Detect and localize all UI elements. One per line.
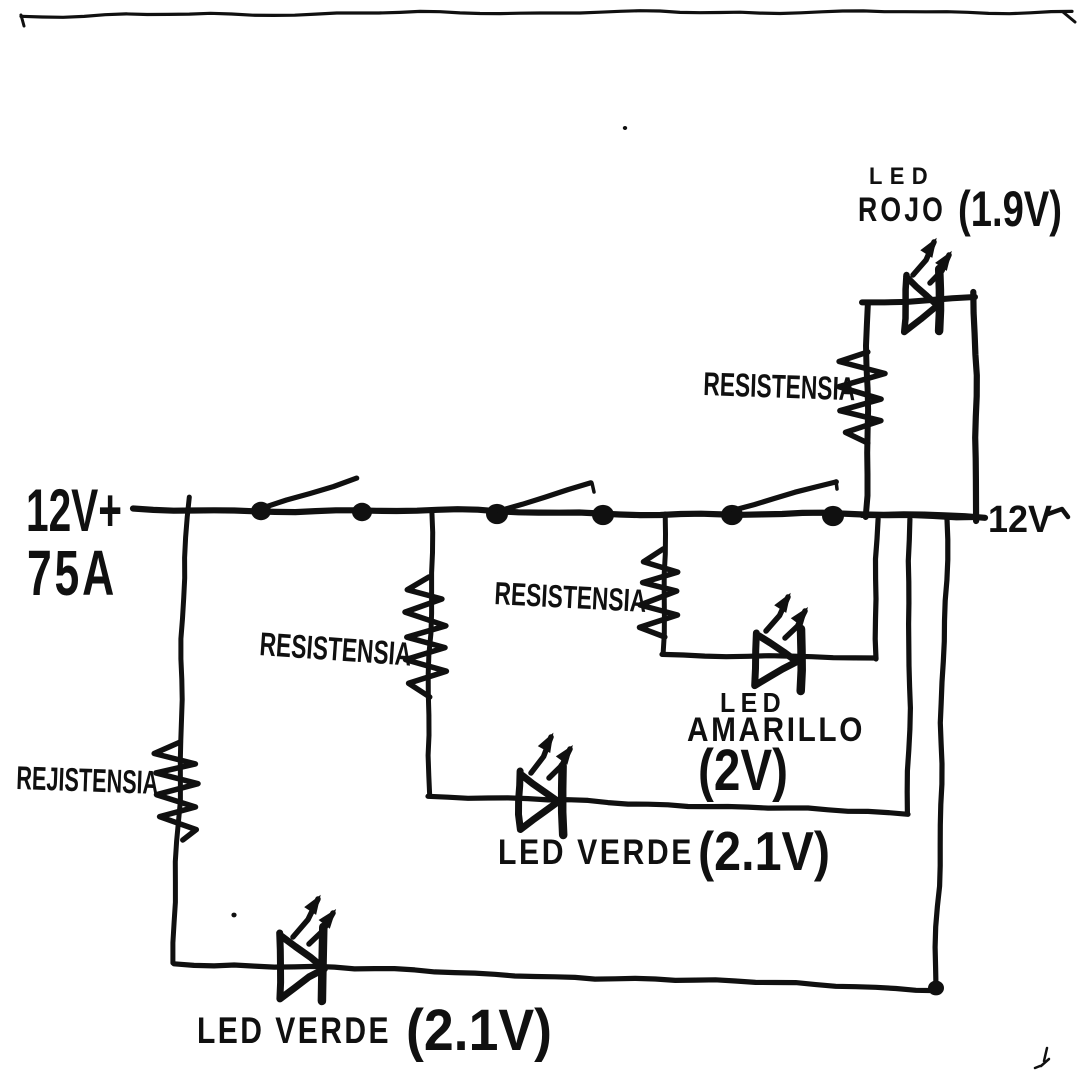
svg-text:REJISTENSIA: REJISTENSIA bbox=[16, 759, 159, 801]
switch S1 blade bbox=[263, 478, 357, 508]
label LED VERDE mid bbox=[498, 833, 694, 872]
resistor R2 bbox=[405, 577, 446, 697]
label RESISTENSIA R4 bbox=[703, 365, 856, 407]
node J2 bbox=[352, 503, 372, 521]
wire branch2 right vertical up to rail bbox=[907, 519, 910, 813]
resistor R3 bbox=[640, 549, 678, 637]
svg-text:(1.9V): (1.9V) bbox=[958, 181, 1062, 237]
wire rojo box right vertical bbox=[973, 292, 977, 521]
LED D2 green mid bbox=[519, 766, 564, 835]
svg-text:LED VERDE: LED VERDE bbox=[197, 1010, 391, 1051]
svg-text:LED: LED bbox=[869, 163, 935, 190]
label RESISTENSIA R2 bbox=[259, 625, 413, 673]
LED D1 green bbox=[280, 927, 325, 1001]
wire rojo box bottom overdraw on rail bbox=[862, 515, 980, 517]
svg-text:75A: 75A bbox=[27, 537, 117, 609]
svg-text:12V+: 12V+ bbox=[26, 477, 122, 544]
LED D4 arrows bbox=[913, 238, 952, 283]
ink speck top center bbox=[623, 126, 627, 130]
wire main 12V+ rail bbox=[133, 509, 985, 518]
svg-text:12V: 12V bbox=[988, 499, 1053, 541]
svg-text:RESISTENSIA: RESISTENSIA bbox=[494, 575, 648, 619]
wire rojo box left vertical bbox=[866, 303, 868, 517]
wire bottom return bbox=[174, 964, 936, 991]
wire branch2 vertical drop bbox=[428, 512, 433, 796]
label (2.1V) bottom bbox=[406, 998, 552, 1063]
LED D2 arrows bbox=[531, 733, 573, 778]
border scan line top bbox=[21, 11, 1075, 26]
LED D3 yellow bbox=[755, 629, 802, 691]
wire branch2 horizontal to LED bbox=[428, 796, 908, 814]
switch S2 blade bbox=[499, 483, 594, 511]
wire branch3 right vertical up to rail bbox=[875, 519, 878, 659]
label AMARILLO bbox=[687, 711, 865, 749]
svg-text:(2.1V): (2.1V) bbox=[406, 998, 552, 1063]
node J5 bbox=[721, 505, 743, 525]
wire rojo box top bbox=[862, 297, 975, 302]
svg-text:ROJO: ROJO bbox=[858, 191, 946, 229]
LED D1 arrows bbox=[293, 895, 336, 944]
label 12V+ supply bbox=[26, 477, 122, 544]
label (1.9V) bbox=[958, 181, 1062, 237]
resistor R1 bbox=[154, 742, 198, 840]
label LED amarillo bbox=[720, 687, 786, 718]
node J1 bbox=[251, 502, 271, 520]
resistor R4 bbox=[839, 352, 885, 443]
wire branch3 vertical drop bbox=[663, 514, 665, 654]
node J3 bbox=[486, 504, 508, 524]
wire right return vertical bbox=[935, 519, 948, 988]
node J4 bbox=[592, 505, 614, 525]
LED D3 arrows bbox=[766, 593, 808, 638]
node bottom-right corner bbox=[928, 981, 944, 996]
wire branch3 horizontal to LED bbox=[662, 654, 876, 658]
label (2.1V) mid bbox=[698, 820, 830, 882]
label REJISTENSIA R1 bbox=[16, 759, 159, 801]
label 12V- return bbox=[988, 499, 1068, 541]
svg-text:(2.1V): (2.1V) bbox=[698, 820, 830, 882]
label RESISTENSIA R3 bbox=[494, 575, 648, 619]
label LED rojo bbox=[869, 163, 935, 190]
switch S3 blade bbox=[734, 481, 837, 510]
LED D4 red bbox=[904, 269, 940, 332]
ink speck squiggle bottom right bbox=[1035, 1048, 1049, 1068]
node J6 bbox=[822, 506, 844, 526]
svg-text:LED VERDE: LED VERDE bbox=[498, 833, 694, 872]
label (2V) bbox=[698, 738, 788, 803]
wire branch1 vertical drop bbox=[173, 497, 189, 963]
svg-text:(2V): (2V) bbox=[698, 738, 788, 803]
svg-text:RESISTENSIA: RESISTENSIA bbox=[703, 365, 856, 407]
label LED VERDE bottom bbox=[197, 1010, 391, 1051]
label 75A bbox=[27, 537, 117, 609]
svg-text:RESISTENSIA: RESISTENSIA bbox=[259, 625, 413, 673]
label ROJO bbox=[858, 191, 946, 229]
ink speck mid left bbox=[231, 913, 236, 918]
